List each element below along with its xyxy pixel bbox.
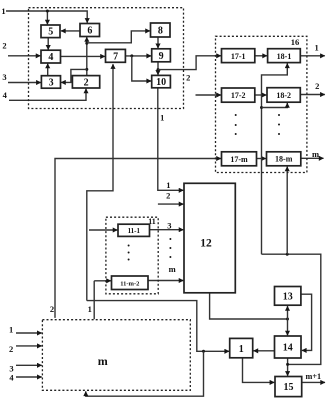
wire box m loop to block 1 and box m bottom: [87, 301, 229, 352]
dashed group box 11: [106, 217, 158, 294]
wire block 7 to block 9: [125, 55, 151, 57]
wire up into block 13 bottom: [287, 306, 289, 319]
svg-text:2: 2: [2, 40, 6, 50]
svg-text:1: 1: [314, 42, 318, 52]
wire block 17-2 to block 18-2: [255, 94, 267, 96]
node junction feedback to 18-2: [260, 106, 263, 109]
node junction feedback to 18-m: [286, 253, 289, 256]
svg-text:2: 2: [9, 344, 13, 354]
wire input 1 bus to blocks 5 and 6: [6, 11, 87, 23]
svg-text:3: 3: [49, 78, 54, 89]
block 18-2: [267, 88, 300, 103]
block 4: [41, 50, 61, 63]
node ellipsis dots 17 column: [235, 114, 237, 116]
dashed group box m: [42, 320, 190, 391]
wire input 4 to block 2 bottom: [9, 89, 86, 101]
dashed group box top-left: [29, 8, 184, 109]
svg-text:4: 4: [3, 90, 8, 100]
wire block 17-m to block 18-m: [257, 158, 266, 160]
wire block 11-1 to block 12 input 3: [150, 229, 184, 231]
wire block 2 top rising to block 6 bottom: [86, 37, 88, 76]
svg-text:17-m: 17-m: [230, 155, 248, 164]
svg-text:15: 15: [284, 382, 294, 393]
node junction on wire to block 1: [202, 350, 205, 353]
block 1: [230, 338, 253, 357]
block 5: [41, 25, 60, 38]
svg-text:9: 9: [159, 51, 164, 62]
svg-text:11: 11: [148, 217, 156, 226]
svg-text:2: 2: [315, 81, 319, 91]
svg-text:1: 1: [166, 180, 170, 190]
svg-text:17-1: 17-1: [231, 52, 246, 61]
svg-text:4: 4: [9, 373, 14, 383]
wire block 6 to block 5: [61, 30, 80, 32]
wire block 4 to block 7: [61, 55, 105, 57]
svg-text:18-1: 18-1: [277, 52, 292, 61]
block 18-1: [268, 49, 301, 63]
svg-text:1: 1: [88, 304, 92, 314]
svg-text:1: 1: [1, 6, 5, 16]
node junction on 12-13-14 wire: [286, 318, 289, 321]
svg-text:1: 1: [9, 325, 13, 335]
wire input 2 to block 4: [8, 55, 40, 57]
svg-text:11-m-2: 11-m-2: [120, 281, 139, 288]
block 17-m: [222, 152, 257, 166]
block 6: [80, 24, 100, 37]
svg-text:m: m: [98, 354, 108, 368]
block 18-m: [267, 152, 301, 166]
wire block 14 bottom to block 15 top: [287, 358, 289, 376]
svg-text:11-1: 11-1: [128, 227, 141, 235]
wire box m output 1 rising: [93, 281, 95, 319]
block 7: [106, 49, 126, 62]
wire input to block 11-1: [89, 229, 117, 231]
svg-text:1: 1: [160, 112, 164, 122]
svg-text:12: 12: [200, 238, 212, 250]
svg-text:2: 2: [84, 77, 89, 88]
wire branch to block 8 left: [87, 31, 150, 43]
node junction below block 14: [286, 363, 289, 366]
wire branch up to block 18-m bottom: [286, 167, 288, 255]
svg-text:18-2: 18-2: [276, 91, 291, 100]
wire from box m top up to block 17-m: [55, 159, 221, 318]
wire branch block 7 to block 10: [132, 56, 151, 81]
wire block 11-m-2 to block 12 input m: [148, 280, 183, 282]
block 8: [151, 23, 171, 37]
svg-text:4: 4: [48, 52, 53, 63]
wire branch to block 18-2 bottom: [262, 103, 288, 108]
block 11-m-2: [112, 276, 149, 290]
svg-text:16: 16: [291, 37, 300, 47]
svg-text:5: 5: [48, 27, 53, 38]
svg-text:10: 10: [156, 77, 166, 88]
svg-text:1: 1: [239, 344, 244, 355]
wire from box m top up to block 7 bottom: [87, 64, 113, 300]
wire block 18-1 output 1: [300, 55, 325, 57]
wire box m input 1: [16, 332, 42, 334]
wire block 9 to block 10: [157, 62, 159, 75]
wire input 3 to block 3: [8, 82, 41, 84]
block 2: [72, 76, 99, 88]
dashed group box 16: [216, 36, 307, 172]
node ellipsis dots 11 column: [128, 245, 130, 247]
svg-text:m: m: [169, 264, 176, 274]
block 3: [41, 76, 60, 89]
node junction on input 1 bus: [46, 10, 49, 13]
node ellipsis dots 18 column: [278, 114, 280, 116]
wire down to bottom feedback into box m bottom: [86, 351, 204, 396]
svg-text:17-2: 17-2: [231, 91, 246, 100]
wire input to block 17-2: [196, 94, 221, 96]
svg-text:18-m: 18-m: [275, 155, 293, 164]
block 15: [275, 377, 302, 397]
wire block 1 to block 15: [243, 358, 275, 383]
svg-text:7: 7: [113, 51, 118, 62]
block 12: [184, 183, 235, 292]
wire block 10 down to block 12 input 1: [158, 88, 184, 191]
wire down into block 14 top: [287, 319, 289, 335]
wire to block 11-m-2 input: [94, 280, 111, 282]
node ellipsis dots 12 input column: [169, 238, 171, 240]
block 10: [152, 75, 171, 87]
node junction block 2 net lower: [85, 68, 88, 71]
svg-text:m+1: m+1: [306, 372, 322, 381]
wire block 17-1 to block 18-1: [255, 55, 267, 57]
svg-text:3: 3: [2, 72, 6, 82]
wire block 12 to blocks 13 and 14: [210, 293, 288, 319]
wire feedback horizontal at y254: [262, 254, 321, 364]
block 9: [152, 49, 171, 62]
svg-text:2: 2: [50, 304, 54, 314]
svg-text:6: 6: [87, 26, 92, 37]
svg-text:2: 2: [186, 72, 190, 82]
wire block 3 to block 4: [47, 64, 49, 76]
wire box m input 2: [16, 345, 42, 347]
wire block 13 to block 14 right side: [301, 294, 312, 350]
wire block 18-2 output 2: [300, 94, 325, 96]
block 14: [275, 336, 302, 358]
svg-text:8: 8: [158, 26, 163, 37]
wire block 9 to block 17-1: [158, 56, 221, 70]
wire block 8 to block 9: [157, 37, 159, 48]
svg-text:m: m: [312, 149, 319, 159]
block 11-1: [118, 224, 150, 236]
block 13: [275, 287, 301, 306]
node junction below block 9: [157, 68, 160, 71]
wire junction to block 5 top: [46, 11, 48, 24]
svg-text:3: 3: [167, 220, 171, 230]
wire box m input 4: [16, 376, 42, 378]
wire branch to block 3 right: [61, 69, 87, 82]
wire block 15 output m+1: [302, 381, 325, 383]
block 17-2: [222, 88, 255, 102]
wire block 18-m output m: [301, 157, 324, 159]
wire block 5 to block 4: [47, 38, 49, 50]
wire block 12 input 2: [158, 203, 184, 205]
node junction on 7-9 wire: [130, 54, 133, 57]
wire feedback bus up to 18 blocks: [262, 63, 288, 254]
wire box m input 3: [16, 364, 42, 366]
block 17-1: [222, 49, 255, 63]
svg-text:13: 13: [283, 292, 293, 303]
svg-text:14: 14: [283, 343, 293, 354]
svg-text:2: 2: [166, 190, 170, 200]
node junction block 2 net upper: [85, 42, 88, 45]
wire block 14 to block 1: [254, 350, 275, 352]
